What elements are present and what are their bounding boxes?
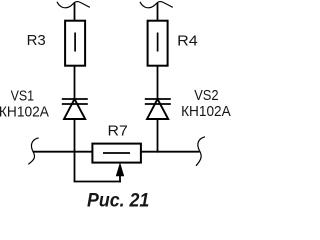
wire: R4 to VS2 bbox=[157, 66, 159, 99]
dinistor VS2 bbox=[145, 99, 171, 119]
wire: top stub to R3 bbox=[74, 3, 76, 21]
svg-text:КН102А: КН102А bbox=[0, 103, 49, 120]
wiper arrow of R7 bbox=[116, 163, 124, 176]
wire: right bus from R7 to break bbox=[141, 151, 200, 153]
wire break squiggle above R3 bbox=[57, 2, 90, 8]
wire: left bus from break to R7 bbox=[33, 151, 92, 153]
wire: VS1 down through node A to wiper corner bbox=[74, 119, 76, 182]
svg-text:VS1: VS1 bbox=[11, 87, 34, 104]
wire: wiper riser bbox=[119, 175, 121, 182]
resistor R7 (adjustable) bbox=[92, 144, 140, 163]
wire break squiggle above R4 bbox=[140, 2, 173, 8]
dinistor VS1 bbox=[62, 99, 88, 119]
svg-text:R7: R7 bbox=[108, 122, 128, 139]
resistor R4 bbox=[148, 21, 168, 66]
svg-text:VS2: VS2 bbox=[194, 87, 218, 104]
wire: R3 to VS1 bbox=[74, 66, 76, 99]
wire: top stub to R4 bbox=[157, 3, 159, 21]
svg-text:Рис. 21: Рис. 21 bbox=[87, 190, 149, 211]
wire: wiper bottom run bbox=[74, 181, 121, 183]
wire break squiggle left bbox=[28, 138, 38, 165]
svg-text:R4: R4 bbox=[177, 33, 198, 50]
resistor R3 bbox=[65, 21, 85, 66]
svg-text:R3: R3 bbox=[27, 32, 46, 49]
wire break squiggle right bbox=[196, 137, 205, 166]
svg-text:КН102А: КН102А bbox=[181, 103, 231, 120]
wire: VS2 to bus node bbox=[157, 119, 159, 153]
